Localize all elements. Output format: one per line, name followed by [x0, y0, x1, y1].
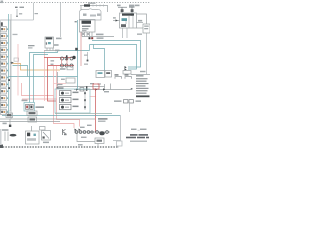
- wire teal branch from right: [30, 51, 90, 103]
- junction block left column: [1, 27, 8, 32]
- fuel sender bottom-left: [5, 132, 8, 142]
- node dots on teal vertical: [8, 79, 10, 81]
- wire teal H2: [90, 45, 137, 70]
- ticks on power line: [93, 5, 104, 7]
- text above teal mid: [28, 45, 35, 46]
- wire red top drop: [80, 32, 82, 66]
- wire vertical x57: [57, 72, 59, 88]
- pins below ecu box: [123, 28, 128, 38]
- arrows at pink wire ends: [75, 129, 77, 131]
- J/B markers right: [115, 74, 119, 75]
- border bottom dashed: [0, 146, 119, 148]
- border corner mark: [1, 1, 4, 4]
- right-bottom drop: [113, 116, 121, 141]
- border corner bottom-left: [0, 145, 3, 149]
- red box B+: [93, 84, 99, 89]
- wire vertical x33: [33, 3, 35, 20]
- ground strip row: [114, 100, 122, 102]
- component dark bar on red row: [66, 55, 68, 60]
- wires right of ecu: [137, 14, 147, 24]
- wire from label B: [16, 9, 18, 17]
- text labels near bus: [104, 91, 109, 92]
- wire teal long mid: [9, 76, 78, 78]
- wire teal branch 2: [34, 55, 49, 103]
- component at orange wire end: [60, 68, 66, 70]
- junction block outline: [1, 20, 11, 111]
- pins below relay box: [47, 48, 53, 51]
- transistor grid center: [61, 57, 74, 67]
- node arrow left: [10, 62, 14, 64]
- wire teal jog: [13, 66, 28, 77]
- connector box mid 2: [105, 71, 112, 78]
- wire pink A: [22, 83, 75, 128]
- teal relay group box bottom-center: [55, 89, 90, 113]
- gray bus lines center: [58, 86, 105, 88]
- wire bus stubs: [104, 84, 106, 90]
- wire red rows center: [44, 57, 74, 59]
- labeled box right of transistors: [66, 78, 75, 83]
- legend text block right: [136, 75, 150, 97]
- connector strip top-center: [80, 9, 102, 20]
- pins below relay block: [82, 32, 92, 37]
- wire orange: [13, 64, 61, 71]
- relay box top-center-left: [45, 37, 54, 48]
- wire pink B: [22, 99, 80, 127]
- left edge gray strip: [0, 129, 2, 145]
- arrow into ecu: [113, 20, 120, 22]
- node bus end tick: [131, 88, 133, 90]
- relay r1: [60, 91, 87, 96]
- switch bottom-left: [9, 119, 11, 126]
- small comp mid-right at teal ends: [125, 66, 127, 69]
- wire red verticals between rows: [62, 58, 68, 66]
- component blob on red row: [72, 56, 75, 59]
- node dark tick: [57, 87, 59, 89]
- relay box bottom mid-left: [42, 131, 51, 141]
- label B top-left: [15, 7, 18, 8]
- title block bottom right: [126, 129, 149, 142]
- wire red main: [48, 58, 57, 102]
- top right components: [117, 5, 121, 7]
- wire red vertical down: [95, 89, 97, 132]
- box small left: [6, 113, 13, 118]
- component box bottom-left2: [31, 126, 33, 131]
- diode symbols on bus: [76, 88, 78, 91]
- top-center power line: [80, 5, 108, 7]
- box right edge: [143, 24, 150, 33]
- dark junction dots: [89, 37, 91, 39]
- lamps chain bottom-center: [74, 131, 110, 133]
- wire teal vertical left of block: [77, 20, 79, 89]
- wire pink stub to red: [90, 96, 96, 98]
- wire teal H1: [92, 41, 141, 68]
- stacked boxes on line bottom-left: [27, 111, 37, 116]
- wire vertical x87 with end node: [87, 52, 89, 60]
- relay block top-center: [80, 20, 96, 33]
- gray line right: [131, 74, 150, 76]
- wire pink short: [54, 83, 66, 85]
- box at bottom border right: [117, 141, 123, 146]
- connector box mid: [96, 71, 105, 78]
- text label near diode box: [36, 106, 45, 108]
- border top dotted: [0, 2, 150, 4]
- wire pink C: [44, 51, 46, 101]
- wire pair teal/gray left: [8, 14, 10, 116]
- vertical line center top: [60, 3, 62, 37]
- wire pink vertical left: [17, 44, 19, 96]
- text labels bottom-center: [98, 118, 108, 119]
- transistor symbol bottom: [62, 129, 64, 135]
- diode box left-bottom: [24, 103, 35, 112]
- gray/teal long lines bottom: [55, 113, 112, 115]
- wire teal H3: [94, 45, 105, 71]
- wire pink vertical pair: [53, 66, 55, 96]
- ecu box top right: [120, 13, 137, 28]
